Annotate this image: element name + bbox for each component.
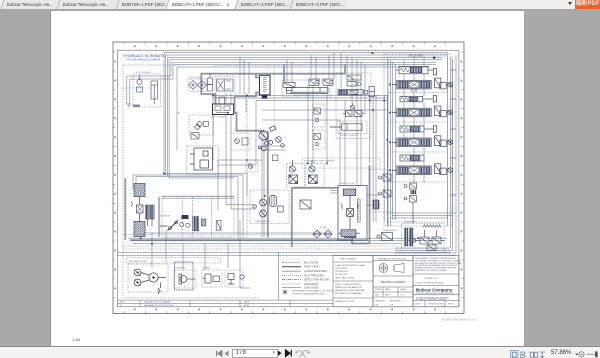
cylinder label tick: [139, 75, 141, 80]
tandem pump label band: [127, 257, 221, 263]
svg-text:OPERATOR: OPERATOR: [159, 215, 171, 218]
filter diamond above main block: [195, 124, 201, 130]
title block: Bobcat Company cell: [413, 256, 463, 307]
small valve above hydrostat pumps: [272, 155, 278, 161]
svg-text:CHECK VALVE: CHECK VALVE: [189, 76, 203, 79]
lift cylinder group: [191, 122, 208, 140]
zoom slider track: [587, 353, 598, 355]
svg-text:250 EAST BEATON DRIVE, WEST FA: 250 EAST BEATON DRIVE, WEST FARGO ND: [416, 292, 455, 295]
svg-text:V723 SIN A8HL11001 & ABOVE: V723 SIN A8HL11001 & ABOVE: [126, 59, 161, 62]
dashed vertical reference line x=274: [273, 66, 275, 130]
mid-right module enclosure (dashed): [336, 73, 371, 139]
svg-text:CASE DRAIN: CASE DRAIN: [304, 283, 318, 286]
sheet outer frame: [113, 42, 464, 314]
next page button: [277, 350, 282, 357]
hydrostat pump module B: [308, 160, 317, 184]
charge pump group (lower): [253, 196, 311, 217]
relief valve module 3: [400, 96, 437, 103]
svg-text:STD (2-SPD): STD (2-SPD): [408, 54, 423, 58]
svg-text:STEERING: STEERING: [175, 268, 186, 270]
main pump circle cluster: [258, 126, 276, 151]
status bar: [0, 346, 600, 358]
zoom out button: [579, 352, 584, 357]
telescope spool (dark bar): [338, 90, 368, 96]
svg-text:REFERENCE ONLY AND ARE: REFERENCE ONLY AND ARE: [335, 289, 365, 292]
svg-text:CONTROLLER MOUNTING UNIT: CONTROLLER MOUNTING UNIT: [292, 293, 326, 295]
operator station enclosure: [162, 196, 234, 237]
extra return valve box: [427, 245, 436, 251]
relief module 8 (small, above dv7): [400, 155, 424, 161]
service brake valve cluster: [343, 103, 365, 117]
oil sampling module: [246, 160, 258, 172]
tandem gear pump (bottom-left): [134, 269, 166, 294]
svg-text:1 : 1: 1 : 1: [400, 294, 405, 296]
pilot control tower: [193, 217, 221, 231]
svg-text:TELESCOPE: TELESCOPE: [343, 90, 356, 92]
continuous scroll icon: [521, 352, 525, 358]
relief valve module 1: [396, 66, 437, 75]
svg-text:CHECKED: CHECKED: [375, 300, 385, 302]
mid horizontal interconnects: [152, 58, 395, 288]
long return bus lines (bottom band): [118, 233, 456, 255]
svg-text:08-04: 08-04: [244, 305, 250, 307]
sensor dashes row: [121, 87, 153, 89]
master cylinder (solid): [180, 215, 190, 227]
svg-text:FILTER: FILTER: [320, 227, 327, 229]
svg-text:STEER CYLINDER: STEER CYLINDER: [340, 135, 358, 137]
right auxiliary dashed-box internals: [373, 174, 391, 209]
junction node at bank inlet: [433, 57, 435, 59]
footer revision strip: [117, 300, 333, 307]
svg-text:REV: REV: [120, 302, 125, 304]
drive motor assembly: [338, 186, 367, 241]
svg-text:GP 21 GPM: GP 21 GPM: [335, 268, 347, 270]
small relief block right of brake modulator: [228, 274, 244, 285]
main control block (solid): [190, 148, 213, 170]
steering unit: [179, 274, 195, 284]
oil cooler (hatched): [338, 230, 360, 237]
thick grey supply hoses: [125, 64, 369, 247]
last page button: [286, 350, 292, 357]
right valve bank label STD (2-SPD): [408, 54, 423, 58]
joystick controller box A (bold): [260, 75, 271, 95]
check valve diamonds: [189, 81, 207, 90]
brake valve: [377, 233, 393, 241]
svg-text:J.M.: J.M.: [375, 304, 379, 306]
previous view button (grey): [296, 351, 302, 357]
first page button: [217, 351, 223, 357]
dashed vertical reference line x=247: [246, 100, 248, 238]
svg-text:REV B: REV B: [448, 303, 454, 305]
projection stamp: circle symbol: [379, 264, 388, 273]
next view button (grey): [303, 351, 309, 357]
gearbox circles beside main pump: [276, 137, 285, 148]
dashed enclosure outlines: [123, 54, 452, 298]
svg-text:PERMISSION OF BOBCAT COMPANY.: PERMISSION OF BOBCAT COMPANY.: [415, 269, 447, 272]
prev page button: [225, 351, 229, 357]
legend: line-style key: [278, 252, 329, 300]
frame zone tick marks: [113, 42, 464, 314]
title block: third-angle projection cell: [373, 256, 413, 307]
svg-text:SIZE E: SIZE E: [415, 303, 421, 305]
svg-text:NOTE: ITEMS SHOWN IN: NOTE: ITEMS SHOWN IN: [335, 284, 361, 286]
svg-text:DRAWN: B.T. 2008: DRAWN: B.T. 2008: [335, 300, 354, 303]
counterbalance module a: [309, 79, 319, 85]
svg-text:PR 3300 PSI: PR 3300 PSI: [335, 271, 348, 273]
accessory valve cluster (mid-left): [231, 133, 250, 150]
hand valve near left bank: [146, 205, 155, 226]
svg-text:MATL: MATL: [385, 288, 391, 291]
zoom dropdown caret: [575, 354, 578, 356]
svg-text:TANK CAP 31 GAL: TANK CAP 31 GAL: [335, 277, 355, 280]
ground symbol: [127, 104, 132, 107]
svg-text:NOT PART OF SCHEMATIC: NOT PART OF SCHEMATIC: [335, 292, 363, 295]
joystick connector (solid bowtie): [262, 95, 267, 99]
svg-text:DATE: DATE: [244, 301, 250, 304]
filter / strainer pair near bottom-mid: [313, 230, 332, 238]
svg-text:PILOT PRESSURE: PILOT PRESSURE: [304, 275, 324, 277]
svg-text:APPROVED: APPROVED: [390, 299, 402, 302]
title block: spec box column: [333, 256, 373, 307]
telescope valve cluster: [347, 75, 361, 86]
steer cylinder: [330, 121, 367, 134]
svg-text:CONTRACT NO.: CONTRACT NO.: [424, 277, 438, 280]
svg-text:PUMP SUPPLY: PUMP SUPPLY: [304, 267, 321, 269]
directional spool valve module 2: [392, 78, 453, 92]
pilot operated check pair (lower bank): [404, 183, 417, 223]
svg-text:HYDROSTATIC PUMP (TANDEM): HYDROSTATIC PUMP (TANDEM): [304, 160, 335, 163]
svg-text:PART NUMBER: PART NUMBER: [340, 258, 356, 261]
projection stamp: cone symbol: [394, 264, 404, 273]
right-side bottom valve cluster (cross pattern): [405, 228, 446, 246]
cylinder body: [151, 81, 158, 99]
relief valve module 5: [400, 126, 437, 133]
svg-text:PHANTOM LINE ARE FOR: PHANTOM LINE ARE FOR: [335, 286, 362, 289]
svg-text:DIRECT TANK RETURN: DIRECT TANK RETURN: [304, 279, 330, 282]
telescope section vertical drops: [240, 53, 365, 114]
dashed return enclosure lines (bottom band): [123, 235, 447, 249]
pilot modules left of drive area: [313, 104, 326, 149]
svg-text:N/A: N/A: [385, 293, 389, 296]
solenoid capsule: [208, 73, 213, 91]
svg-text:VR 723B VERSA HANDLER (B SERIE: VR 723B VERSA HANDLER (B SERIES): [416, 297, 449, 300]
wire bus: top staircase harness (7 parallel runs): [127, 53, 447, 238]
directional spool valve module 7: [392, 164, 453, 175]
left valve bank (vertical stack): [131, 184, 145, 237]
brake pedal linkage: [160, 221, 178, 231]
svg-text:LOAD SENSE: LOAD SENSE: [304, 287, 319, 290]
directional spool valve module 4: [392, 106, 453, 117]
svg-text:FINISH: FINISH: [375, 289, 382, 291]
svg-text:6910896 / VR723B REV B DIGITAL: 6910896 / VR723B REV B DIGITAL: [415, 281, 443, 284]
directional spool valve module 6: [392, 136, 453, 147]
single page view icon (selected, blue): [511, 351, 519, 358]
steering enclosure (solid): [175, 262, 194, 290]
tilt cylinder group (upper-left): [127, 75, 158, 108]
bank outlet ticks: [451, 70, 457, 195]
boom extend cylinder (long horizontal): [283, 83, 328, 94]
svg-text:RV 3625 PSI: RV 3625 PSI: [335, 274, 348, 276]
valve bank internal spine lines: [404, 58, 424, 183]
svg-text:BOOM CYLINDER: BOOM CYLINDER: [294, 95, 311, 97]
svg-text:CHARGE PUMP: CHARGE PUMP: [255, 220, 271, 223]
dotted enclosure top mid: [213, 65, 388, 67]
zoom slider knob: [595, 351, 597, 357]
svg-text:LOAD SYSTEM SPECS (SAE):: LOAD SYSTEM SPECS (SAE):: [335, 264, 366, 267]
svg-text:ENCLOSURE: ENCLOSURE: [304, 262, 319, 264]
boom cylinder rod (thick): [290, 91, 326, 93]
svg-text:LOADER PRESSURE: LOADER PRESSURE: [304, 270, 327, 273]
pilot valve circle: [137, 79, 142, 84]
svg-text:BRAKE VALVE: BRAKE VALVE: [383, 229, 397, 232]
svg-text:METRIC FORMAT: METRIC FORMAT: [381, 280, 406, 284]
svg-text:RESERVOIR: RESERVOIR: [404, 222, 416, 224]
right-hand vertical bus lines: [390, 53, 456, 253]
svg-text:SCALE: SCALE: [400, 288, 407, 291]
reservoir enclosure: [402, 223, 444, 252]
svg-text:RELEASED FOR PRODUCTION: RELEASED FOR PRODUCTION: [144, 304, 174, 307]
upper check diamond (small, at top of centre column): [197, 121, 203, 127]
tank baffle toothed strip: [423, 225, 441, 228]
hydrostat pump module A: [289, 160, 298, 184]
svg-text:THIRD ANGLE PROJECTION: THIRD ANGLE PROJECTION: [377, 257, 407, 260]
pilot 4-way valve: [217, 79, 234, 109]
small manifold box: [369, 87, 375, 97]
svg-text:LIFT CYLINDER: LIFT CYLINDER: [211, 117, 226, 119]
counterbalance module b: [323, 79, 333, 85]
svg-text:IMPLEMENT PUMP: IMPLEMENT PUMP: [129, 261, 148, 263]
drawing title (blue): [123, 54, 166, 62]
thick feed to boom valve: [283, 64, 285, 83]
svg-text:N/A: N/A: [375, 293, 379, 296]
svg-text:BRAKE: BRAKE: [203, 267, 210, 270]
page edge shading: [50, 11, 51, 346]
svg-text:Bobcat Company: Bobcat Company: [416, 288, 453, 293]
scattered component labels (tiny): [129, 72, 416, 270]
joystick controller box B (bold): [213, 104, 234, 115]
svg-text:HYDRAULIC SCHEMATIC: HYDRAULIC SCHEMATIC: [123, 54, 166, 58]
svg-text:TILT CYLINDER: TILT CYLINDER: [136, 72, 151, 74]
brake modulator: [203, 274, 220, 283]
svg-text:6910896 (8-08) Printed in U.S.: 6910896 (8-08) Printed in U.S.A.: [442, 318, 477, 321]
thick hose bracket around joystick A: [235, 74, 260, 113]
legend note: integrated component marker: [283, 290, 334, 296]
sheet inner frame: [117, 50, 459, 307]
svg-text:DRIVE MOTOR: DRIVE MOTOR: [340, 183, 355, 185]
svg-text:D.K.: D.K.: [390, 304, 394, 306]
svg-text:INTEGRATED IN HYDRAULIC JOYSTI: INTEGRATED IN HYDRAULIC JOYSTICK: [292, 290, 334, 293]
fit width icon: [540, 352, 546, 358]
svg-text:DESCRIPTION OF CHANGE: DESCRIPTION OF CHANGE: [144, 301, 171, 304]
page number 1-66: [72, 337, 80, 342]
PDF viewer tab bar: [0, 0, 600, 9]
relief below: [219, 97, 225, 104]
svg-text:DWG NO 6910896: DWG NO 6910896: [428, 303, 443, 305]
facing pages icon: [530, 352, 537, 357]
